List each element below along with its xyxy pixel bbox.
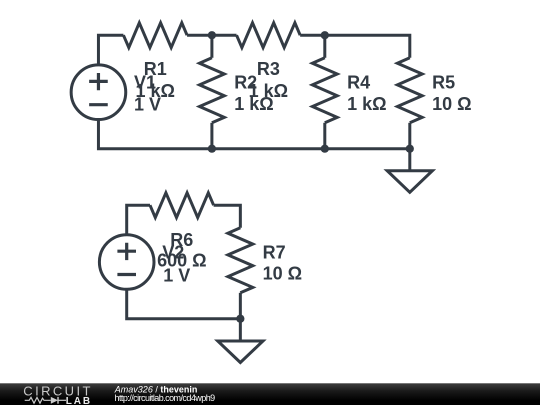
resistor R7: [228, 228, 253, 293]
svg-text:1 kΩ: 1 kΩ: [347, 94, 386, 114]
resistor R4: [312, 58, 337, 123]
voltage source V1: [71, 65, 126, 120]
svg-text:R7: R7: [263, 242, 286, 262]
wire R1 to node A: [187, 34, 212, 37]
wire V1 top lead: [98, 35, 123, 65]
wire node A to R3: [212, 34, 237, 37]
ground node junction dot G2: [236, 315, 244, 323]
wire R7 to bottom node: [239, 293, 242, 319]
voltage source V2: [99, 235, 154, 290]
wire node B to R5 top: [325, 35, 410, 58]
resistor R5: [397, 58, 422, 123]
svg-text:R3: R3: [257, 59, 280, 79]
ground node junction dot G1: [406, 145, 414, 153]
wire R3 to node B: [300, 34, 325, 37]
wire bottom rail (V2 to ground node): [127, 289, 241, 318]
CircuitLab logo zigzag wire: [25, 397, 51, 403]
wire V2 top lead: [127, 205, 150, 235]
bottom rail junction dot at R2: [208, 145, 216, 153]
wire R5 to bottom rail: [408, 123, 411, 149]
svg-text:R4: R4: [347, 73, 370, 93]
node A junction dot: [208, 31, 216, 39]
svg-text:1 kΩ: 1 kΩ: [136, 81, 175, 101]
svg-text:LAB: LAB: [66, 396, 92, 405]
wire bottom rail (V1 to ground node): [98, 120, 409, 149]
svg-text:1 kΩ: 1 kΩ: [249, 81, 288, 101]
resistor R3: [237, 23, 301, 48]
bottom rail junction dot at R4: [321, 145, 329, 153]
node B junction dot: [321, 31, 329, 39]
wire node B to R4: [323, 35, 326, 58]
wire R6 to R7 top: [214, 205, 241, 228]
svg-text:10 Ω: 10 Ω: [432, 94, 471, 114]
wire R2 to bottom rail: [210, 123, 213, 149]
svg-text:600 Ω: 600 Ω: [157, 251, 206, 271]
svg-text:R1: R1: [144, 59, 167, 79]
wire R4 to bottom rail: [323, 123, 326, 149]
resistor R1: [123, 23, 187, 48]
svg-text:http://circuitlab.com/cd4wph9: http://circuitlab.com/cd4wph9: [115, 393, 216, 403]
svg-text:10 Ω: 10 Ω: [263, 263, 302, 283]
svg-text:R6: R6: [170, 230, 193, 250]
resistor R2: [200, 58, 225, 123]
CircuitLab logo diode: [51, 397, 58, 404]
wire ground lead G1: [408, 149, 411, 171]
ground G2: [218, 341, 263, 363]
wire ground lead G2: [239, 319, 242, 341]
wire node A to R2: [210, 35, 213, 58]
resistor R6: [150, 193, 214, 218]
ground G1: [387, 171, 432, 193]
svg-text:R5: R5: [432, 73, 455, 93]
